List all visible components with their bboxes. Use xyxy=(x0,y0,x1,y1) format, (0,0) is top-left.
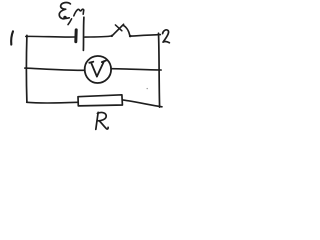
voltmeter V: body circle xyxy=(85,56,111,83)
wire battery to switch xyxy=(85,36,112,37)
battery cell: long plate xyxy=(82,17,85,50)
switch S: blade xyxy=(112,24,124,36)
wire right vertical (node2 bus) xyxy=(159,33,160,107)
wire left vertical (node1 bus) xyxy=(25,35,27,102)
label EMF "E, r" xyxy=(59,3,83,25)
wire middle rail left (to voltmeter) xyxy=(25,68,85,70)
battery cell: short plate xyxy=(74,30,77,42)
resistor R: box xyxy=(78,95,122,106)
switch S: cross tick xyxy=(115,25,122,31)
switch S: left contact dot xyxy=(111,35,113,37)
label R xyxy=(96,112,108,129)
wire resistor to node 2 corner xyxy=(123,100,162,107)
faint dot artifact lower right xyxy=(147,88,148,89)
wire bottom rail left (to resistor) xyxy=(27,101,78,104)
wire switch to node 2 corner xyxy=(131,35,161,37)
node label 2 xyxy=(163,30,170,43)
voltmeter V: letter V xyxy=(89,61,106,77)
switch S: right contact dot xyxy=(129,35,132,38)
node label 1 xyxy=(11,31,13,44)
switch S: pivot arc xyxy=(123,25,130,35)
wire top rail left (to battery) xyxy=(26,35,75,38)
wire middle rail right xyxy=(111,69,161,70)
